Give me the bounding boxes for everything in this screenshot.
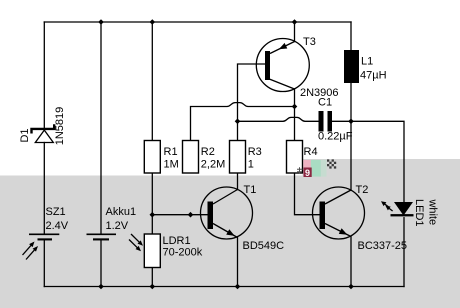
svg-text:LED1: LED1 [413, 199, 425, 227]
diode D1 cathode bar with schottky hooks [32, 124, 55, 133]
transistor T3 base bar [265, 51, 270, 80]
node bottom rail / T2 emitter [348, 284, 354, 290]
inductor L1 [344, 50, 359, 83]
battery SZ1 long plate [29, 233, 59, 235]
svg-text:2,2M: 2,2M [201, 159, 225, 171]
battery Akku1 long plate [87, 233, 117, 235]
node top rail / R1 [150, 19, 156, 25]
wire D1 to SZ1 [43, 143, 45, 234]
svg-text:LDR1: LDR1 [163, 235, 191, 247]
wire T1 emitter to bottom rail [237, 238, 239, 287]
solar arrows at SZ1 [23, 242, 39, 260]
diode D1 triangle [35, 130, 53, 142]
LED1 emission arrows [381, 201, 393, 211]
transistor T3 circle [256, 39, 309, 92]
node base rail / R2 [188, 212, 194, 218]
svg-text:white: white [427, 198, 439, 225]
transistor T1 emitter arrow [226, 229, 235, 236]
wire SZ1 to bottom rail [43, 240, 45, 286]
wire T3 base down through to R3 [238, 64, 266, 141]
svg-text:1N5819: 1N5819 [54, 107, 66, 146]
svg-text:47µH: 47µH [360, 70, 387, 82]
svg-text:R1: R1 [164, 146, 178, 158]
svg-text:L1: L1 [361, 56, 373, 68]
resistor R3 [230, 141, 246, 174]
resistor R2 [183, 141, 199, 174]
resistor R1 [144, 141, 160, 174]
transistor T2 emitter arrow [339, 228, 348, 234]
wire Akku1 column lower [100, 240, 102, 286]
transistor T2 emitter line [325, 224, 351, 237]
svg-text:C1: C1 [318, 97, 332, 109]
watermark grey scribble [297, 167, 303, 173]
shaded background lower region [0, 176, 460, 308]
node bottom rail / LDR1 [150, 284, 156, 290]
transistor T1 base bar [208, 202, 214, 230]
wire base node to LDR1 [151, 215, 153, 234]
watermark mint block [311, 160, 321, 177]
wire 1 R2 top to R4 node with hop [191, 103, 295, 141]
transistor T3 collector line [268, 79, 295, 90]
node wire2 / R3 [235, 119, 241, 125]
transistor T2 circle [313, 187, 365, 239]
svg-text:0.22µF: 0.22µF [318, 131, 353, 143]
node bottom rail / Akku1 [98, 284, 104, 290]
svg-text:70-200k: 70-200k [163, 247, 203, 259]
transistor T2 base bar [320, 202, 326, 230]
wire R1 to base node [151, 173, 153, 215]
svg-text:T3: T3 [303, 36, 316, 48]
photoresistor LDR1 [144, 234, 160, 268]
wire R4 to T2 base [295, 173, 320, 215]
wire base rail to T1 [152, 214, 207, 216]
transistor T3 emitter line [270, 42, 295, 54]
watermark checkerboard [327, 159, 336, 168]
wire LDR1 to bottom rail [151, 268, 153, 287]
arrows at LDR1 [129, 234, 143, 251]
wire bottom rail [44, 286, 404, 288]
node top rail / Akku1 [98, 19, 104, 25]
svg-text:Akku1: Akku1 [106, 206, 137, 218]
svg-text:R3: R3 [248, 146, 262, 158]
wire L1 top lead [350, 22, 352, 50]
svg-text:SZ1: SZ1 [46, 206, 66, 218]
wire C1 to LED column [332, 121, 404, 202]
wire T3 emitter column from top rail [294, 22, 296, 42]
node top rail / T3 emitter [292, 19, 298, 25]
battery Akku1 short plate [93, 238, 109, 240]
wire T2 collector [350, 121, 352, 190]
svg-text:BD549C: BD549C [243, 240, 285, 252]
wire LED1 to bottom rail [403, 218, 405, 287]
wire R3 to T1 collector [237, 173, 239, 190]
svg-text:9: 9 [305, 168, 310, 178]
transistor T1 circle [201, 187, 253, 239]
transistor T3 emitter arrow [279, 43, 288, 49]
svg-text:1.2V: 1.2V [106, 220, 129, 232]
transistor T1 emitter line [213, 224, 238, 238]
svg-text:D1: D1 [19, 128, 31, 142]
svg-text:T1: T1 [244, 184, 257, 196]
wire T3 collector to R4 [294, 89, 296, 141]
node base rail / R1 LDR1 [150, 212, 156, 218]
svg-text:R2: R2 [201, 146, 215, 158]
battery SZ1 short plate [38, 238, 53, 240]
LED1 cathode bar [391, 214, 414, 216]
wire 2 from R3 node to C1 with hop [238, 117, 319, 121]
watermark dark red glyph [304, 168, 312, 178]
watermark faded mint block [321, 160, 327, 177]
node wire1 / R4 [292, 104, 298, 110]
watermark pink block [303, 160, 311, 176]
node wire2 / L1 T2 collector [348, 119, 354, 125]
shaded background right strip [303, 159, 460, 176]
svg-text:1: 1 [248, 159, 254, 171]
wire left column upper (to D1) [43, 22, 45, 128]
capacitor C1 plates [319, 111, 324, 132]
svg-text:1M: 1M [164, 159, 179, 171]
svg-text:T2: T2 [356, 184, 369, 196]
wire R1 column from top rail [151, 22, 153, 141]
node bottom rail / T1 emitter [235, 284, 241, 290]
wire T2 emitter to bottom rail [350, 237, 352, 287]
wire Akku1 column upper [100, 22, 102, 234]
transistor T2 collector line [325, 190, 351, 204]
svg-text:BC337-25: BC337-25 [358, 240, 408, 252]
wire top rail [44, 21, 351, 23]
svg-text:2.4V: 2.4V [46, 220, 69, 232]
wire L1 bottom to wire2 node [350, 83, 352, 121]
LED1 triangle [394, 202, 413, 216]
transistor T1 collector line [213, 190, 238, 205]
resistor R4 [287, 141, 303, 174]
svg-text:R4: R4 [304, 146, 318, 158]
